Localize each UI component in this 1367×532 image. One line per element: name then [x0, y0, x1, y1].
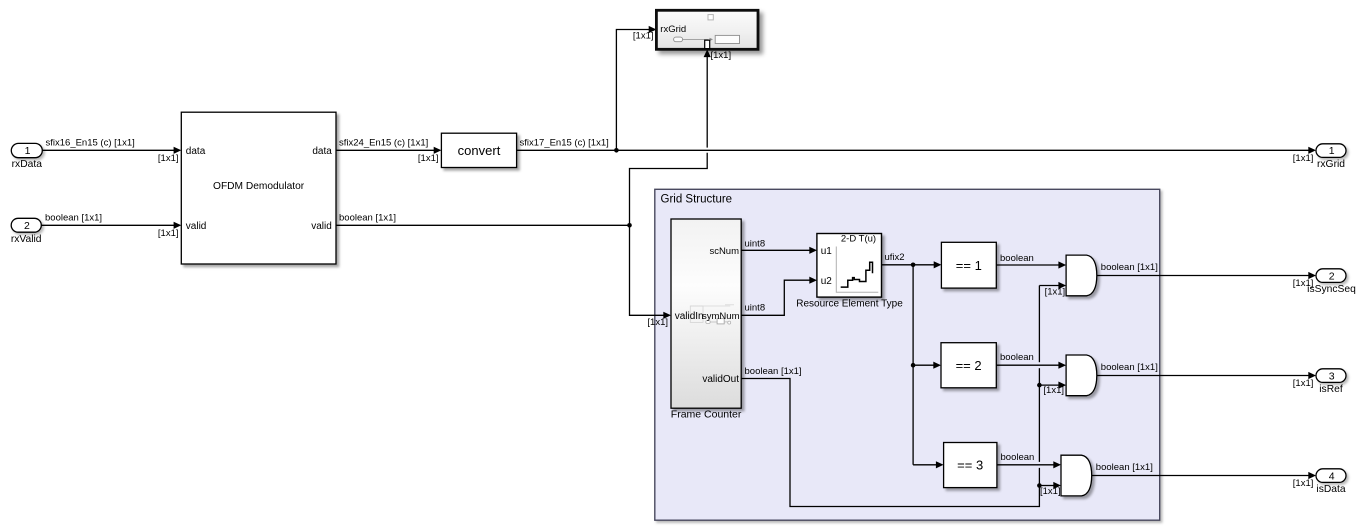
svg-text:[1x1]: [1x1]: [1045, 287, 1066, 298]
compare block == 2: [941, 343, 996, 388]
svg-text:data: data: [312, 146, 332, 157]
svg-text:boolean: boolean: [1000, 253, 1034, 264]
svg-text:boolean [1x1]: boolean [1x1]: [1096, 462, 1153, 473]
svg-text:boolean: boolean: [1001, 452, 1035, 463]
svg-text:[1x1]: [1x1]: [1293, 378, 1314, 389]
svg-text:valid: valid: [311, 221, 332, 232]
wire convert to rxGrid output port: [517, 138, 1316, 164]
svg-text:3: 3: [1329, 370, 1335, 382]
svg-text:[1x1]: [1x1]: [633, 31, 654, 42]
compare block == 3: [944, 443, 997, 488]
svg-text:== 1: == 1: [956, 258, 982, 273]
junction node on rxGrid wire: [614, 148, 619, 153]
Resource Element Type block (2-D lookup): [796, 233, 903, 309]
wire OFDM valid out: [336, 213, 632, 228]
AND gate 3: [1061, 455, 1092, 496]
wire valid branch up to scope bottom input (with crossing gap): [630, 49, 732, 225]
svg-text:rxGrid: rxGrid: [1317, 159, 1345, 170]
wire scNum to u1: [741, 239, 817, 254]
OFDM Demodulator block U1: [181, 112, 336, 264]
wire ufix2 to == 1: [882, 252, 942, 268]
svg-text:u2: u2: [821, 276, 833, 287]
svg-text:rxGrid: rxGrid: [660, 24, 686, 35]
svg-text:u1: u1: [821, 246, 833, 257]
svg-text:symNum: symNum: [702, 311, 740, 322]
svg-text:2: 2: [1329, 270, 1335, 282]
svg-text:[1x1]: [1x1]: [711, 50, 732, 61]
svg-text:rxValid: rxValid: [11, 234, 42, 245]
wire gate 2 out to isRef port: [1097, 362, 1316, 389]
svg-text:scNum: scNum: [709, 246, 739, 257]
output port 3 isRef: [1316, 369, 1346, 395]
svg-text:boolean [1x1]: boolean [1x1]: [1101, 362, 1158, 373]
svg-text:2: 2: [24, 220, 30, 232]
svg-text:[1x1]: [1x1]: [1040, 486, 1061, 497]
svg-text:isData: isData: [1316, 484, 1345, 495]
output port 2 isSyncSeq: [1307, 269, 1356, 295]
wire valid branch down to validIn: [630, 225, 672, 328]
wire rxData to OFDM data input: [42, 138, 181, 164]
svg-text:[1x1]: [1x1]: [158, 228, 179, 239]
wire gate 3 out to isData port: [1092, 462, 1316, 489]
output port 4 isData: [1316, 469, 1346, 495]
wire == 1 out to AND gate 1: [996, 253, 1066, 268]
svg-text:Grid Structure: Grid Structure: [661, 194, 733, 206]
svg-text:boolean: boolean: [1000, 352, 1034, 363]
svg-text:== 2: == 2: [956, 358, 982, 373]
svg-text:uint8: uint8: [745, 303, 766, 314]
svg-text:sfix24_En15 (c) [1x1]: sfix24_En15 (c) [1x1]: [339, 138, 428, 149]
svg-text:boolean [1x1]: boolean [1x1]: [45, 213, 102, 224]
wire dropper from ufix2 down to == 2 and == 3: [911, 265, 944, 469]
wire rxValid to OFDM valid input: [41, 213, 181, 239]
Frame Counter block: [671, 219, 742, 420]
svg-text:[1x1]: [1x1]: [158, 153, 179, 164]
input port 2 rxValid: [11, 218, 42, 245]
svg-text:isSyncSeq: isSyncSeq: [1307, 284, 1356, 295]
svg-text:Resource Element Type: Resource Element Type: [796, 298, 903, 309]
svg-text:4: 4: [1329, 470, 1335, 482]
wire OFDM data out to convert: [336, 138, 441, 164]
svg-text:1: 1: [25, 145, 31, 157]
svg-text:rxData: rxData: [12, 159, 43, 170]
svg-text:validIn: validIn: [675, 311, 704, 322]
compare block == 1: [941, 242, 996, 288]
svg-text:uint8: uint8: [745, 239, 766, 250]
Grid Structure area: [655, 189, 1160, 520]
svg-text:sfix17_En15 (c) [1x1]: sfix17_En15 (c) [1x1]: [520, 138, 609, 149]
input port 1 rxData: [11, 143, 42, 170]
svg-text:validOut: validOut: [702, 374, 739, 385]
svg-text:[1x1]: [1x1]: [1293, 153, 1314, 164]
svg-text:boolean [1x1]: boolean [1x1]: [339, 213, 396, 224]
svg-text:== 3: == 3: [957, 458, 983, 473]
svg-text:[1x1]: [1x1]: [1293, 478, 1314, 489]
svg-text:1: 1: [1329, 145, 1335, 157]
svg-text:[1x1]: [1x1]: [647, 317, 668, 328]
svg-text:sfix16_En15 (c) [1x1]: sfix16_En15 (c) [1x1]: [46, 138, 135, 149]
svg-text:valid: valid: [186, 221, 207, 232]
AND gate 2: [1066, 355, 1097, 396]
svg-text:ufix2: ufix2: [885, 252, 905, 263]
wire junction up to scope left input: [616, 26, 656, 150]
svg-text:2-D T(u): 2-D T(u): [841, 233, 876, 244]
svg-text:[1x1]: [1x1]: [1043, 385, 1064, 396]
svg-text:convert: convert: [458, 143, 501, 158]
output port 1 rxGrid: [1316, 144, 1346, 170]
svg-text:boolean [1x1]: boolean [1x1]: [1101, 262, 1158, 273]
wire validOut rail to gate second inputs: [741, 282, 1066, 507]
AND gate 1: [1066, 255, 1097, 296]
wire == 3 out to AND gate 3: [997, 452, 1061, 468]
scope block rxGrid (viewer): [656, 10, 758, 49]
svg-text:OFDM Demodulator: OFDM Demodulator: [213, 181, 305, 192]
wire gate 1 out to isSyncSeq port: [1097, 262, 1316, 289]
svg-text:boolean [1x1]: boolean [1x1]: [745, 366, 802, 377]
convert block (Data Type Conversion): [441, 133, 516, 167]
wire symNum to u2: [741, 277, 817, 316]
svg-text:isRef: isRef: [1319, 384, 1343, 395]
svg-text:[1x1]: [1x1]: [418, 153, 439, 164]
wire == 2 out to AND gate 2 (crossing gap): [996, 352, 1066, 369]
svg-text:data: data: [186, 146, 206, 157]
svg-text:Frame Counter: Frame Counter: [671, 408, 742, 420]
